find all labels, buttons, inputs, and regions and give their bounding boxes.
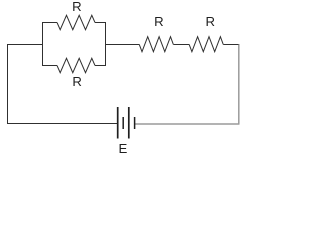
svg-text:R: R <box>72 0 82 14</box>
wire: bottom branch right lead <box>95 65 106 67</box>
svg-text:R: R <box>72 74 82 89</box>
svg-text:E: E <box>119 141 128 156</box>
battery E: long plate 1 (positive) <box>117 107 119 139</box>
resistor R2 (bottom of parallel pair) <box>57 58 95 72</box>
wire: between R3 and R4 <box>173 44 189 46</box>
wire: right vertical side (light gray) <box>238 45 240 125</box>
wire: top branch left lead <box>42 22 57 24</box>
resistor R1 (top of parallel pair) <box>57 15 95 29</box>
resistor R4 (second series resistor) <box>189 37 223 52</box>
wire: top branch right lead <box>95 22 106 24</box>
wire: bottom branch left lead <box>42 65 57 67</box>
node: right junction of parallel pair (vertical tie wire) <box>105 22 107 66</box>
battery E: short plate 2 (negative) <box>134 117 136 129</box>
wire: bottom-left horizontal from left side to battery <box>7 123 118 125</box>
wire: top-right horizontal from R4 to corner <box>223 44 239 46</box>
battery E: short plate 1 (negative) <box>122 117 124 129</box>
wire: middle horizontal from parallel pair to R3 <box>106 44 140 46</box>
svg-text:R: R <box>206 14 216 29</box>
svg-text:R: R <box>154 14 164 29</box>
wire: left vertical side <box>7 44 9 124</box>
wire: top-left horizontal <box>7 44 43 46</box>
node: left junction of parallel pair (vertical tie wire) <box>42 22 44 66</box>
wire: bottom-right horizontal from battery to corner (light gray) <box>135 123 240 125</box>
resistor R3 (first series resistor) <box>139 37 173 52</box>
battery E: long plate 2 (positive) <box>128 107 130 139</box>
